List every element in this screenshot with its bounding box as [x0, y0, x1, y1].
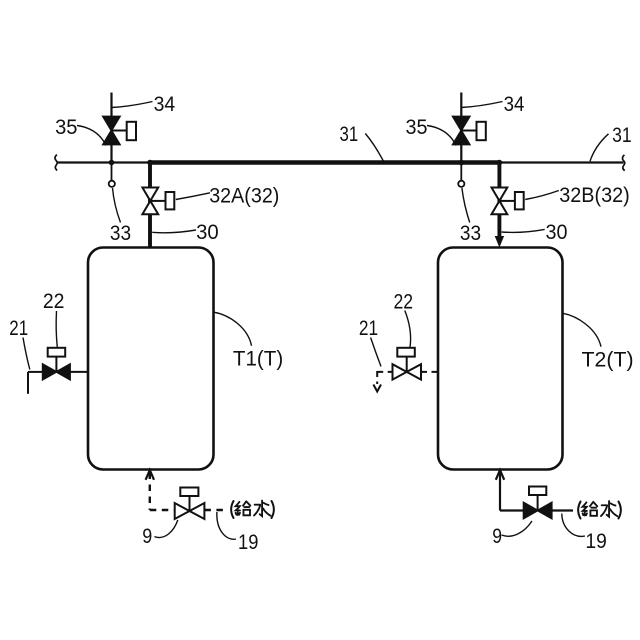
svg-text:34: 34: [504, 93, 525, 116]
svg-text:30: 30: [546, 221, 568, 244]
svg-text:34: 34: [154, 93, 176, 116]
svg-text:T2(T): T2(T): [582, 349, 634, 372]
svg-text:35: 35: [55, 116, 77, 139]
svg-text:T1(T): T1(T): [233, 348, 283, 371]
svg-text:19: 19: [585, 530, 606, 553]
svg-text:35: 35: [406, 116, 428, 139]
svg-text:22: 22: [43, 290, 65, 313]
svg-text:31: 31: [612, 124, 632, 147]
svg-text:9: 9: [492, 525, 502, 548]
svg-text:21: 21: [9, 317, 28, 340]
svg-text:22: 22: [394, 290, 414, 313]
svg-text:21: 21: [359, 317, 378, 340]
svg-text:32B(32): 32B(32): [559, 184, 630, 207]
svg-text:33: 33: [460, 222, 481, 245]
svg-text:31: 31: [340, 123, 359, 146]
svg-text:32A(32): 32A(32): [209, 184, 279, 207]
svg-text:30: 30: [196, 221, 219, 244]
svg-text:33: 33: [110, 222, 131, 245]
svg-text:9: 9: [142, 525, 152, 548]
svg-text:19: 19: [238, 531, 258, 554]
